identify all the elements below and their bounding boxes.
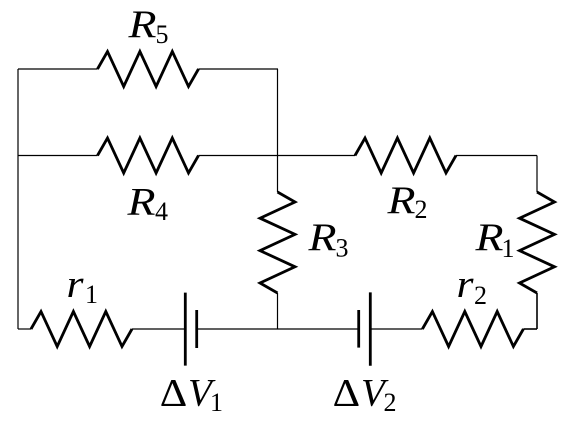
svg-text:Δ: Δ [160,371,188,414]
svg-text:Δ: Δ [333,371,361,414]
svg-text:R: R [127,3,156,46]
svg-text:5: 5 [156,20,169,49]
svg-text:1: 1 [210,388,223,417]
svg-text:r: r [67,263,85,306]
svg-text:R: R [386,179,415,222]
svg-text:R: R [307,216,336,259]
svg-text:2: 2 [474,281,487,310]
svg-text:r: r [457,263,475,306]
svg-text:1: 1 [85,280,98,309]
svg-text:2: 2 [415,195,428,224]
svg-text:R: R [126,181,155,224]
svg-text:1: 1 [502,234,515,263]
svg-text:R: R [474,216,503,259]
svg-text:2: 2 [384,388,397,417]
svg-text:4: 4 [155,197,168,226]
svg-text:3: 3 [336,234,349,263]
